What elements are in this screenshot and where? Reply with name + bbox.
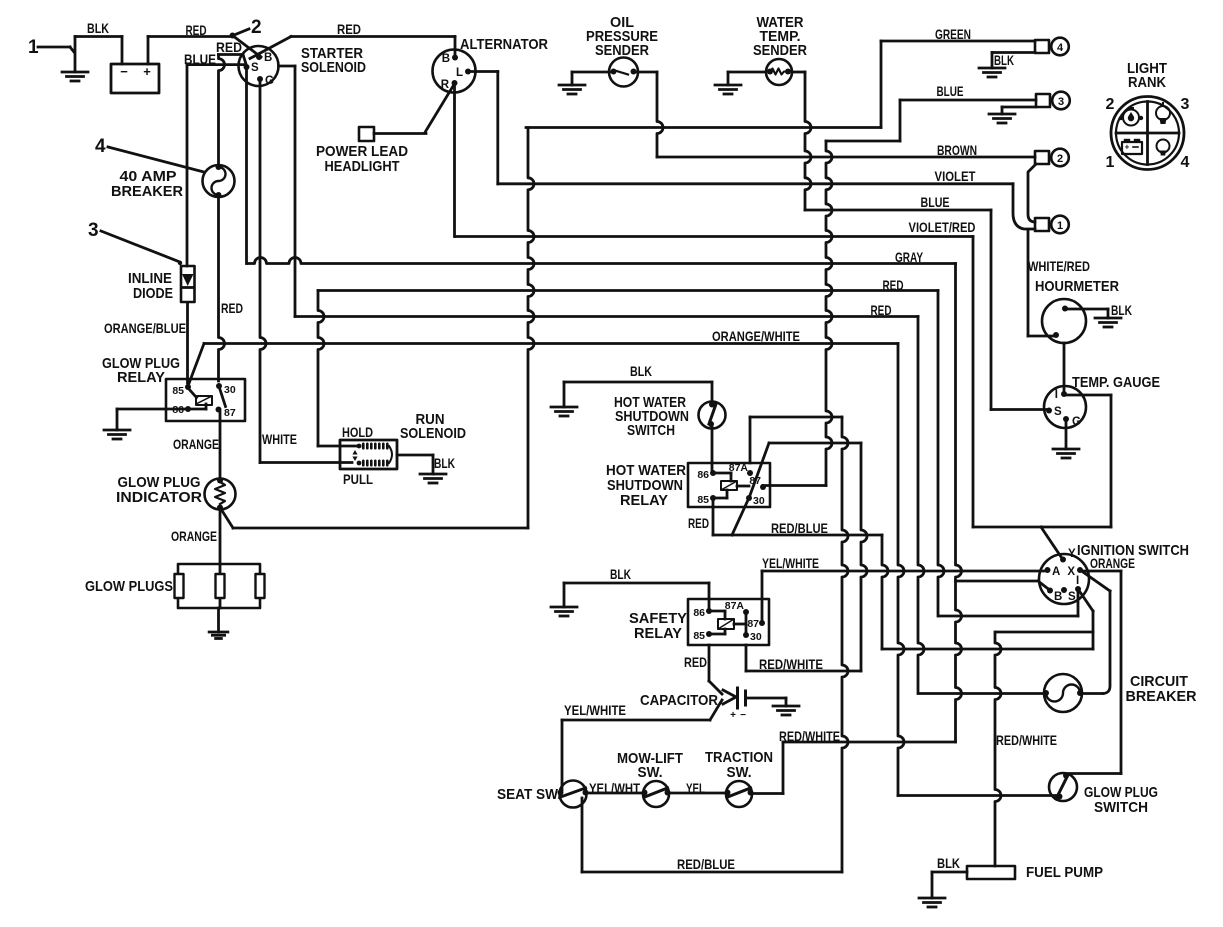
- temp gauge terminal G: [1063, 416, 1081, 428]
- glow plug switch S8: [1049, 773, 1077, 802]
- wire safety relay 86 to ground: [564, 583, 709, 611]
- svg-text:S: S: [1068, 591, 1076, 603]
- svg-text:BLK: BLK: [434, 455, 455, 471]
- wire relay 86 to ground: [117, 409, 188, 430]
- svg-text:RED: RED: [186, 22, 207, 38]
- label BLK connector 4: [994, 52, 1014, 68]
- wire hot water relay throw to red/white riser: [769, 442, 861, 445]
- svg-text:ORANGE/WHITE: ORANGE/WHITE: [712, 328, 800, 344]
- svg-text:86: 86: [693, 607, 705, 619]
- wire connector 1 down to hourmeter: [1028, 231, 1053, 336]
- wire hot water relay 87 to blue riser: [763, 484, 826, 487]
- glow plug relay switch arm: [220, 388, 226, 407]
- svg-text:RED: RED: [216, 39, 242, 55]
- svg-text:3: 3: [1181, 96, 1190, 113]
- temp sender ground: [715, 85, 741, 94]
- wire solenoid B output right: [279, 65, 296, 68]
- wire ORANGE relay 87 down to indicator: [219, 412, 222, 479]
- label HOT WATER SHUTDOWN SWITCH: [614, 394, 689, 439]
- wire GRAY bus: [248, 258, 962, 743]
- svg-text:INDICATOR: INDICATOR: [116, 489, 202, 506]
- svg-text:I: I: [1055, 389, 1058, 401]
- wire RED to alternator B terminal: [454, 37, 457, 58]
- wire safety 85 down to capacitor: [709, 645, 722, 694]
- label RED/WHITE fuel: [996, 732, 1057, 748]
- svg-text:85: 85: [693, 630, 705, 642]
- svg-text:HOURMETER: HOURMETER: [1035, 278, 1119, 295]
- solenoid terminal B: [256, 52, 272, 64]
- label WHITE: [262, 431, 297, 447]
- wire ignition X diagonal to circuit breaker riser: [1083, 572, 1110, 591]
- hot water relay terminal 87A: [729, 462, 753, 476]
- wire connector 2 down to connector 1: [1028, 164, 1036, 222]
- wire fuel pump feed line: [996, 631, 1093, 634]
- label BLK battery: [87, 20, 109, 36]
- svg-text:BLUE: BLUE: [921, 194, 950, 210]
- wire glow indicator bus vertical: [233, 128, 534, 529]
- light rank legend: [1106, 60, 1190, 171]
- solenoid terminal G: [257, 75, 274, 87]
- label RED gray-bus: [883, 277, 904, 293]
- fuel pump P1: [967, 866, 1015, 879]
- svg-text:Y: Y: [1068, 548, 1076, 560]
- svg-text:B: B: [264, 52, 272, 64]
- run solenoid ground: [420, 474, 446, 483]
- svg-text:RED: RED: [337, 21, 361, 37]
- svg-text:RED/WHITE: RED/WHITE: [996, 732, 1057, 748]
- label GLOW PLUG RELAY: [102, 355, 180, 386]
- run solenoid L1: [340, 440, 397, 469]
- svg-text:BLK: BLK: [87, 20, 109, 36]
- svg-text:BLK: BLK: [1111, 302, 1132, 318]
- svg-text:86: 86: [697, 469, 709, 481]
- wire capacitor to ground: [746, 698, 787, 706]
- wire alternator L to VIOLET bus: [468, 72, 498, 184]
- label 40 AMP BREAKER: [111, 168, 183, 200]
- label RED safety 85: [684, 654, 707, 670]
- wire ignition X to ORANGE: [1080, 571, 1121, 774]
- wire fuel pump to ground: [932, 872, 967, 898]
- label RED breaker-relay wire: [221, 300, 243, 316]
- wire RED bus to ignition I: [318, 291, 944, 617]
- wire red/white riser: [861, 443, 867, 671]
- hot water relay coil: [713, 473, 749, 498]
- svg-text:BLK: BLK: [994, 52, 1014, 68]
- label GLOW PLUG INDICATOR: [116, 474, 202, 506]
- connector 4: [1035, 38, 1069, 56]
- svg-text:R: R: [441, 79, 450, 91]
- label RED/BLUE bottom: [677, 856, 735, 872]
- wire indicator diagonal to bus line: [221, 509, 233, 528]
- svg-text:L: L: [456, 67, 463, 79]
- wire BLUE down to inline diode: [186, 65, 189, 266]
- safety relay armature 87A-30: [745, 612, 748, 635]
- wire battery BLK to ground: [75, 37, 122, 65]
- label HOLD: [342, 424, 373, 440]
- wire circuit breaker left: [920, 692, 1044, 695]
- svg-text:FUEL PUMP: FUEL PUMP: [1026, 864, 1103, 881]
- svg-text:87: 87: [224, 407, 236, 419]
- label VIOLET/RED: [909, 219, 976, 235]
- alternator terminal L: [456, 67, 471, 79]
- wire GREEN to connector 4: [881, 41, 1035, 128]
- svg-text:SEAT SW.: SEAT SW.: [497, 786, 561, 803]
- alternator G1: [433, 50, 476, 93]
- starter solenoid K1: [239, 46, 279, 86]
- label RED hot water relay: [688, 515, 709, 531]
- svg-text:RED: RED: [221, 300, 243, 316]
- svg-text:SOLENOID: SOLENOID: [301, 59, 366, 76]
- wire temp sender right down to BLUE: [793, 72, 812, 210]
- svg-text:30: 30: [224, 384, 236, 396]
- connector 3 ground: [989, 114, 1015, 123]
- svg-text:RELAY: RELAY: [117, 369, 165, 386]
- label ORANGE above indicator: [173, 436, 219, 452]
- wire circuit breaker right: [1082, 591, 1110, 694]
- wire ignition I diagonal down: [1078, 589, 1093, 649]
- svg-text:2: 2: [1106, 96, 1115, 113]
- svg-text:SWITCH: SWITCH: [627, 422, 675, 439]
- svg-text:BREAKER: BREAKER: [111, 183, 183, 200]
- relay terminal 87: [216, 407, 236, 420]
- label YEL/WHT: [589, 780, 640, 796]
- svg-text:RELAY: RELAY: [620, 492, 668, 509]
- wire connector 4 to ground: [992, 53, 1035, 69]
- wire ORANGE/WHITE diagonal from relay 85: [188, 344, 204, 387]
- svg-text:4: 4: [1057, 42, 1064, 54]
- svg-text:ORANGE: ORANGE: [171, 528, 217, 544]
- svg-text:1: 1: [1106, 154, 1115, 171]
- wire alternator R diagonal to headlight lead: [426, 85, 455, 132]
- glow plugs ground: [209, 632, 228, 638]
- label BLK hot water switch: [630, 363, 652, 379]
- label RED battery wire: [186, 22, 207, 38]
- svg-text:ALTERNATOR: ALTERNATOR: [460, 36, 548, 53]
- wire RED/BLUE riser down: [882, 535, 888, 649]
- connector 4 ground: [979, 68, 1005, 77]
- temp gauge terminal S: [1046, 406, 1062, 418]
- label IGNITION SWITCH: [1077, 542, 1189, 559]
- oil pressure sender S2: [609, 58, 638, 87]
- svg-text:BLK: BLK: [937, 855, 960, 871]
- wire oil sender right down to BROWN: [637, 72, 664, 157]
- svg-text:G: G: [265, 75, 274, 87]
- power lead headlight connector: [359, 127, 426, 141]
- wire RED/BLUE to ignition S riser: [713, 534, 882, 537]
- glow plug relay ground: [104, 430, 130, 439]
- label RED lower bus: [871, 302, 892, 318]
- label VIOLET: [935, 168, 976, 184]
- ignition terminal A: [1045, 566, 1061, 578]
- hot water relay terminal 86: [697, 469, 716, 481]
- glow plug indicator DS1: [205, 478, 236, 511]
- wire violet-red and temp-I junction to ignition Y: [973, 527, 1111, 559]
- label TEMP. GAUGE: [1072, 374, 1160, 391]
- label GREEN: [935, 26, 971, 42]
- safety relay terminal 87A: [725, 600, 749, 615]
- hourmeter M1: [1042, 299, 1086, 343]
- svg-text:30: 30: [750, 631, 762, 643]
- traction switch S7: [725, 781, 754, 807]
- seat switch S5: [558, 781, 589, 808]
- svg-text:RED: RED: [688, 515, 709, 531]
- ignition switch S1: [1039, 554, 1089, 604]
- wire VIOLET bus: [498, 182, 1013, 185]
- wire YEL/WHITE to seat switch: [562, 720, 710, 790]
- svg-text:SW.: SW.: [638, 764, 663, 781]
- svg-text:BLK: BLK: [610, 566, 631, 582]
- svg-text:RELAY: RELAY: [634, 625, 682, 642]
- hot water relay terminal 85: [697, 494, 716, 506]
- wire ignition I line down to fuel pump: [995, 632, 1001, 866]
- label RED/WHITE traction: [779, 728, 840, 744]
- wire BROWN to connector 2: [657, 156, 1035, 159]
- circuit breaker CB2: [1043, 674, 1083, 712]
- wire 40A breaker down to glow plug relay 30: [219, 196, 225, 381]
- svg-text:BLUE: BLUE: [937, 83, 964, 99]
- svg-text:TEMP. GAUGE: TEMP. GAUGE: [1072, 374, 1160, 391]
- connector 2: [1035, 149, 1069, 167]
- label OIL PRESSURE SENDER: [586, 14, 658, 59]
- svg-text:+: +: [143, 64, 151, 79]
- wire RED to alternator B: [291, 35, 455, 38]
- wire BLUE to connector 3: [900, 100, 1036, 141]
- wire WHITE to run solenoid PULL: [260, 461, 352, 464]
- svg-text:4: 4: [1181, 154, 1190, 171]
- wire temp gauge S from BLUE bus: [991, 408, 1049, 411]
- svg-text:4: 4: [95, 136, 106, 157]
- svg-text:S: S: [1054, 406, 1062, 418]
- safety relay coil: [709, 611, 746, 634]
- label BLK hourmeter: [1111, 302, 1132, 318]
- connector 3: [1036, 92, 1070, 110]
- glow plug relay K2: [166, 379, 245, 421]
- wire temp gauge G to ground: [1065, 419, 1068, 449]
- label BLUE temp sender: [921, 194, 950, 210]
- battery B1: [111, 64, 159, 93]
- wire RED/BLUE line to riser: [882, 648, 1093, 651]
- wire VIOLET/RED bus: [455, 237, 973, 528]
- svg-text:VIOLET/RED: VIOLET/RED: [909, 219, 976, 235]
- wire BLUE connector3 riser: [826, 141, 900, 486]
- wire solenoid G down (WHITE) to run solenoid: [260, 79, 266, 463]
- wire hourmeter to ground: [1068, 309, 1108, 318]
- wire diode down to glow plug relay 85 (ORANGE/BLUE): [186, 303, 189, 383]
- node 3 callout label and pointer: [88, 220, 180, 262]
- label RED solenoid S wire: [216, 39, 242, 55]
- label TRACTION SW.: [705, 749, 773, 781]
- label WHITE/RED: [1028, 258, 1090, 274]
- junction dot node 2: [230, 33, 236, 39]
- svg-text:RED: RED: [684, 654, 707, 670]
- label GLOW PLUGS: [85, 578, 173, 595]
- wire BLUE temp sender bus: [805, 210, 991, 410]
- label BLK safety relay: [610, 566, 631, 582]
- ignition terminal Y: [1060, 548, 1076, 563]
- wire alternator RED line diagonal to solenoid B: [250, 37, 291, 59]
- oil sender ground: [559, 85, 585, 94]
- wire seat switch down to RED/BLUE: [581, 798, 584, 872]
- wire hot water switch to relay 86: [711, 424, 714, 473]
- svg-text:BLK: BLK: [630, 363, 652, 379]
- label GRAY: [895, 249, 923, 265]
- wire ignition I RED feed: [939, 589, 1078, 616]
- svg-text:2: 2: [251, 17, 262, 38]
- safety relay terminal 30: [743, 631, 762, 643]
- glow plug relay coil: [188, 388, 212, 409]
- hot water shutdown relay K3: [688, 463, 770, 507]
- label YEL/WHITE safety 87: [762, 555, 819, 571]
- label ORANGE ignition: [1090, 555, 1135, 571]
- svg-text:S: S: [251, 62, 259, 74]
- wire mow-lift to traction switch: [668, 792, 727, 795]
- wire connector 3 to ground: [1002, 107, 1036, 114]
- wire capacitor to YEL/WHITE: [710, 700, 722, 720]
- wire junction 2 to solenoid B (diagonal): [233, 36, 262, 58]
- wire oil sender to ground: [572, 72, 610, 85]
- svg-text:CAPACITOR: CAPACITOR: [640, 692, 718, 709]
- hot water relay terminal 30: [746, 495, 765, 507]
- label GLOW PLUG SWITCH: [1084, 784, 1158, 816]
- svg-text:WHITE: WHITE: [262, 431, 297, 447]
- label ORANGE/BLUE: [104, 320, 186, 336]
- svg-text:YEL/WHITE: YEL/WHITE: [564, 702, 626, 718]
- wire temp gauge I to ignition Y: [1066, 395, 1111, 527]
- 40 amp breaker CB1: [203, 164, 235, 198]
- label WATER TEMP SENDER: [753, 14, 807, 59]
- safety relay terminal 86: [693, 607, 712, 619]
- svg-text:ORANGE: ORANGE: [173, 436, 219, 452]
- svg-text:1: 1: [1057, 220, 1063, 232]
- relay terminal 30: [216, 383, 236, 396]
- svg-text:HOLD: HOLD: [342, 424, 373, 440]
- svg-text:30: 30: [753, 495, 765, 507]
- svg-text:87A: 87A: [725, 600, 745, 612]
- svg-text:YEL/WHITE: YEL/WHITE: [762, 555, 819, 571]
- label BLK fuel pump: [937, 855, 960, 871]
- wire temp sender to ground: [728, 72, 766, 85]
- wire hot water relay 87A up and over: [750, 417, 842, 463]
- temp gauge M2: [1044, 386, 1086, 428]
- svg-text:SWITCH: SWITCH: [1094, 799, 1148, 816]
- svg-text:ORANGE/BLUE: ORANGE/BLUE: [104, 320, 186, 336]
- wire traction switch up to ignition B line: [751, 742, 956, 794]
- label BLUE: [184, 51, 216, 67]
- capacitor C1: [723, 688, 746, 721]
- wire hot water relay 85 jumper to 30: [713, 498, 748, 535]
- wire safety 30 down and right: [746, 645, 861, 671]
- label INLINE DIODE: [128, 270, 173, 302]
- svg-text:−: −: [120, 64, 128, 79]
- wire B output down to RED bus: [294, 66, 297, 317]
- svg-text:RANK: RANK: [1128, 74, 1166, 91]
- wire battery + to junction 2: [148, 37, 232, 65]
- wire 87A line down to seat switch line: [842, 417, 848, 872]
- label CIRCUIT BREAKER: [1126, 673, 1197, 705]
- node 4 callout label and pointer: [95, 136, 204, 172]
- label RED/BLUE: [771, 520, 828, 536]
- battery ground: [62, 37, 88, 82]
- mow-lift switch S6: [642, 781, 671, 807]
- svg-text:B: B: [442, 53, 450, 65]
- temp gauge terminal I: [1055, 389, 1067, 401]
- svg-text:ORANGE: ORANGE: [1090, 555, 1135, 571]
- hourmeter ground: [1095, 318, 1121, 327]
- svg-text:+: +: [1125, 143, 1130, 152]
- label MOW-LIFT SW.: [617, 750, 683, 781]
- wire safety 87 up to ignition A: [762, 571, 1047, 623]
- ignition terminal S: [1061, 587, 1076, 603]
- svg-text:GLOW PLUGS: GLOW PLUGS: [85, 578, 173, 595]
- wire glow plugs to ground: [217, 608, 220, 632]
- inline diode D1: [178, 261, 195, 302]
- svg-text:DIODE: DIODE: [133, 285, 173, 302]
- svg-text:SW.: SW.: [727, 764, 752, 781]
- svg-text:−: −: [740, 710, 746, 721]
- label BLK run solenoid: [434, 455, 455, 471]
- alternator terminal B: [442, 53, 458, 65]
- svg-text:VIOLET: VIOLET: [935, 168, 976, 184]
- svg-text:3: 3: [88, 220, 99, 241]
- hot water relay switch arm 30 to 87A: [749, 443, 769, 498]
- alternator terminal R: [441, 79, 458, 91]
- node 1 callout label and pointer: [28, 37, 74, 58]
- label POWER LEAD HEADLIGHT: [316, 143, 408, 175]
- svg-text:A: A: [1052, 566, 1060, 578]
- wire seat to mow-lift switch: [586, 792, 644, 795]
- safety relay ground: [551, 607, 577, 616]
- label YEL: [686, 780, 705, 796]
- label ALTERNATOR: [460, 36, 548, 53]
- temp gauge ground: [1053, 449, 1079, 458]
- svg-text:SENDER: SENDER: [753, 42, 807, 59]
- ignition terminal I: [1075, 575, 1081, 592]
- label BLUE connector 3: [937, 83, 964, 99]
- wire ORANGE/WHITE to glow plug switch: [898, 794, 1056, 797]
- wire ORANGE/WHITE bus: [204, 344, 904, 796]
- label RUN SOLENOID: [400, 411, 466, 442]
- node 2 callout label and pointer: [234, 17, 262, 38]
- label HOURMETER: [1035, 278, 1119, 295]
- hot water relay terminal 87: [749, 475, 766, 490]
- label BROWN: [937, 142, 977, 158]
- svg-text:85: 85: [697, 494, 709, 506]
- label ORANGE above glow plugs: [171, 528, 217, 544]
- svg-text:87: 87: [747, 618, 759, 630]
- safety relay terminal 85: [693, 630, 712, 642]
- glow plugs bank: [175, 564, 265, 608]
- connector 1: [1035, 216, 1069, 234]
- hot water switch ground: [551, 407, 577, 416]
- fuel pump ground: [919, 898, 945, 907]
- svg-text:85: 85: [172, 385, 184, 397]
- svg-text:2: 2: [1057, 153, 1063, 165]
- label STARTER SOLENOID: [301, 45, 366, 76]
- label CAPACITOR: [640, 692, 718, 709]
- svg-text:SOLENOID: SOLENOID: [400, 425, 466, 442]
- relay terminal 85: [172, 384, 191, 397]
- svg-text:WHITE/RED: WHITE/RED: [1028, 258, 1090, 274]
- wire S down to gray bus: [245, 66, 248, 264]
- svg-text:+: +: [730, 710, 736, 721]
- wire RED bus to circuit breaker: [295, 317, 924, 694]
- svg-text:B: B: [1054, 591, 1062, 603]
- safety relay K4: [688, 599, 769, 645]
- label RED/WHITE safety 30: [759, 656, 823, 672]
- wire RED down to 40A breaker: [219, 55, 225, 167]
- svg-text:RED/BLUE: RED/BLUE: [677, 856, 735, 872]
- ignition terminal B: [1047, 588, 1062, 604]
